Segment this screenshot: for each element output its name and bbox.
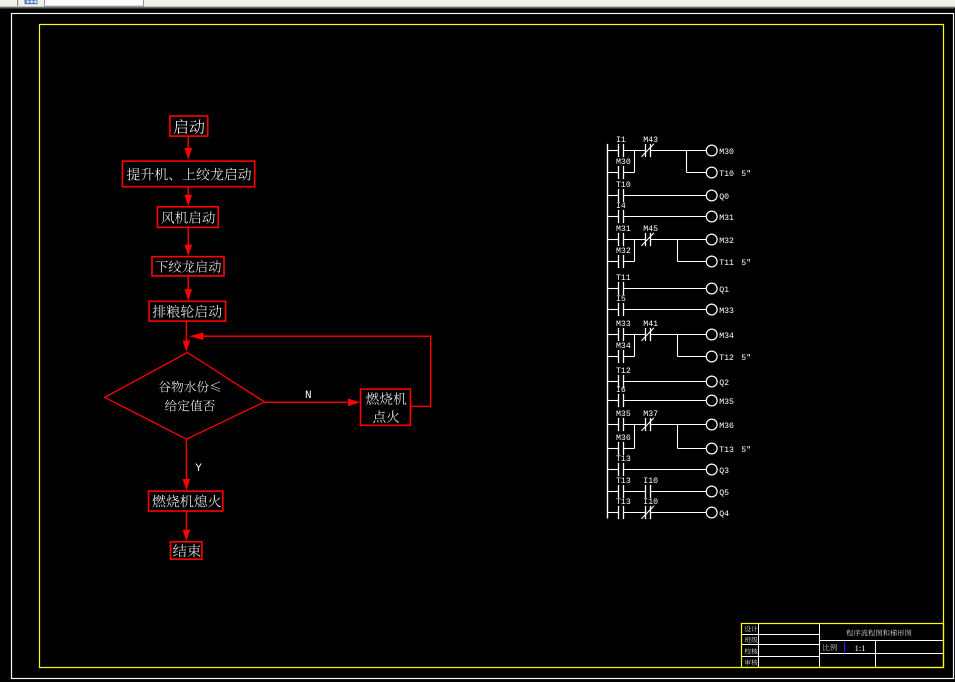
svg-text:T10: T10: [719, 170, 734, 179]
contact M41: [645, 328, 647, 341]
wire junction→coil T13: [678, 448, 707, 450]
svg-text:M35: M35: [616, 410, 631, 419]
coil Q5: [706, 486, 717, 497]
contact T11: [618, 282, 620, 295]
contact M32: [618, 255, 620, 268]
wire T11→coil Q1: [624, 288, 707, 290]
svg-text:5": 5": [741, 258, 751, 268]
toolbar icon: [25, 0, 38, 4]
contact M35: [618, 418, 620, 431]
contact M34: [618, 350, 620, 363]
svg-text:I10: I10: [643, 498, 658, 507]
coil M35: [706, 395, 717, 406]
wire M34→parallel connector: [624, 356, 635, 358]
svg-text:M45: M45: [643, 225, 658, 234]
label 给定值否: [165, 400, 215, 412]
title block title 程序流程图和梯形图: [846, 629, 911, 636]
svg-text:5": 5": [741, 445, 751, 455]
svg-text:5": 5": [741, 353, 751, 363]
title block vertical 1 (labels col): [758, 624, 760, 668]
svg-text:Q4: Q4: [719, 510, 729, 519]
contact M43: [645, 144, 647, 157]
svg-text:T13: T13: [616, 498, 631, 507]
svg-text:I6: I6: [616, 386, 626, 395]
wire M33→M41: [624, 334, 646, 336]
svg-text:M41: M41: [643, 320, 658, 329]
coil T10: [706, 167, 717, 178]
svg-text:T13: T13: [616, 455, 631, 464]
contact M45: [645, 233, 647, 246]
junction drop at x=677.5: [677, 240, 679, 262]
svg-text:Y: Y: [195, 463, 202, 475]
wire rail→M36: [608, 448, 619, 450]
flowchart box 风机启动: [158, 207, 219, 228]
title block label 班级: [745, 637, 758, 643]
arrow diamond→燃烧机点火 (N): [265, 401, 350, 403]
svg-text:Q5: Q5: [719, 489, 729, 498]
flowchart box 下绞龙启动: [152, 257, 224, 276]
title block label 审核: [745, 659, 758, 665]
svg-text:Q1: Q1: [719, 286, 729, 295]
wire T12→coil Q2: [624, 381, 707, 383]
contact T13: [618, 485, 620, 498]
contact T12: [618, 375, 620, 388]
contact I10: [645, 506, 647, 519]
coil Q3: [706, 464, 717, 475]
svg-text:M37: M37: [643, 410, 658, 419]
svg-text:M34: M34: [616, 342, 631, 351]
svg-text:T11: T11: [616, 274, 631, 283]
svg-text:M32: M32: [616, 247, 631, 256]
wire I1→M43: [624, 150, 646, 152]
wire M35→M37: [624, 424, 646, 426]
svg-text:Q0: Q0: [719, 193, 729, 202]
contact M33: [618, 328, 620, 341]
feedback wire 燃烧机点火→diamond top: [204, 336, 431, 406]
contact M31: [618, 233, 620, 246]
title block outer (yellow): [742, 624, 944, 668]
parallel connector at x=634.5: [634, 425, 636, 449]
wire rail→M32: [608, 261, 619, 263]
svg-text:M36: M36: [719, 422, 734, 431]
wire rail→I1: [608, 150, 619, 152]
junction drop at x=677.5: [677, 425, 679, 449]
parallel connector at x=634.5: [634, 151, 636, 173]
svg-text:I4: I4: [616, 202, 626, 211]
label 结束: [173, 544, 201, 557]
coil M31: [706, 211, 717, 222]
wire rail→M35: [608, 424, 619, 426]
svg-text:Q2: Q2: [719, 379, 729, 388]
coil Q1: [706, 283, 717, 294]
svg-text:5": 5": [741, 169, 751, 179]
title block vertical 2 (section split): [819, 624, 821, 668]
label 下绞龙启动: [156, 260, 221, 272]
wire M41→coil M34: [651, 334, 707, 336]
coil M36: [706, 419, 717, 430]
wire T10→coil Q0: [624, 195, 707, 197]
svg-text:T12: T12: [616, 367, 631, 376]
svg-text:1:1: 1:1: [855, 643, 866, 653]
coil T11: [706, 256, 717, 267]
toolbar shadow line: [0, 8, 955, 9]
flowchart box 排粮轮启动: [149, 301, 226, 321]
title block vertical 3 (right cells): [875, 641, 877, 668]
svg-text:M32: M32: [719, 237, 734, 246]
feedback arrowhead: [189, 332, 204, 340]
label 提升机、上绞龙启动: [127, 168, 251, 181]
arrow 提升机→风机: [187, 187, 189, 196]
contact I6: [618, 394, 620, 407]
wire junction→coil T11: [678, 261, 707, 263]
toolbar separator: [17, 0, 18, 6]
flowchart box 结束: [171, 542, 202, 559]
wire junction→coil T12: [678, 356, 707, 358]
wire T13→coil Q3: [624, 469, 707, 471]
coil T12: [706, 351, 717, 362]
coil Q4: [706, 507, 717, 518]
svg-text:I1: I1: [616, 136, 626, 145]
flowchart box 提升机、上绞龙启动: [122, 161, 254, 187]
svg-text:M36: M36: [616, 434, 631, 443]
flowchart decision diamond 谷物水份≤给定值否: [105, 353, 265, 440]
coil T13: [706, 443, 717, 454]
label 燃烧机熄火: [153, 495, 221, 508]
contact M30: [618, 166, 620, 179]
wire rail→T10: [608, 195, 619, 197]
svg-text:T12: T12: [719, 354, 734, 363]
toolbar bottom edge: [0, 7, 955, 8]
svg-text:T11: T11: [719, 259, 734, 268]
wire M37→coil M36: [651, 424, 707, 426]
coil Q2: [706, 376, 717, 387]
wire rail→T13: [608, 469, 619, 471]
toolbar strip background: [0, 0, 955, 7]
wire I10→coil Q5: [651, 491, 707, 493]
svg-text:T13: T13: [616, 477, 631, 486]
title block left row line 3: [742, 656, 820, 658]
svg-text:Q3: Q3: [719, 467, 729, 476]
svg-text:N: N: [305, 390, 312, 402]
parallel connector at x=634.5: [634, 240, 636, 262]
coil M30: [706, 145, 717, 156]
parallel connector at x=634.5: [634, 335, 636, 357]
wire M45→coil M32: [651, 239, 707, 241]
svg-text:I10: I10: [643, 477, 658, 486]
arrow 燃烧机熄火→结束: [185, 511, 187, 531]
flowchart box 启动: [170, 116, 208, 136]
wire M31→M45: [624, 239, 646, 241]
label 点火: [373, 410, 399, 422]
svg-text:M30: M30: [616, 158, 631, 167]
wire M32→parallel connector: [624, 261, 635, 263]
junction drop at x=686.5: [686, 151, 688, 173]
contact I10: [645, 485, 647, 498]
contact M37: [645, 418, 647, 431]
wire rail→M33: [608, 334, 619, 336]
wire rail→I5: [608, 309, 619, 311]
arrow 下绞龙→排粮轮: [187, 276, 189, 290]
wire T13→I10: [624, 512, 646, 514]
svg-text:M31: M31: [616, 225, 631, 234]
svg-text:M30: M30: [719, 148, 734, 157]
coil M34: [706, 329, 717, 340]
ladder left power rail: [607, 144, 609, 519]
svg-text:M33: M33: [616, 320, 631, 329]
wire T13→I10: [624, 491, 646, 493]
flowchart box 燃烧机点火: [361, 389, 411, 425]
wire M43→coil M30: [651, 150, 707, 152]
contact T13: [618, 463, 620, 476]
contact I4: [618, 210, 620, 223]
wire rail→T13: [608, 491, 619, 493]
wire rail→T12: [608, 381, 619, 383]
contact T13: [618, 506, 620, 519]
wire M36→parallel connector: [624, 448, 635, 450]
svg-text:M31: M31: [719, 214, 734, 223]
svg-text:T10: T10: [616, 181, 631, 190]
label 燃烧机: [366, 392, 406, 404]
toolbar input box: [45, 0, 144, 6]
label 谷物水份≤: [159, 381, 220, 393]
wire rail→I6: [608, 400, 619, 402]
label 风机启动: [162, 211, 215, 224]
coil Q0: [706, 190, 717, 201]
title block label 比例: [823, 644, 837, 651]
wire M30→parallel connector: [624, 172, 635, 174]
svg-text:M34: M34: [719, 332, 734, 341]
contact I1: [618, 144, 620, 157]
arrow 风机→下绞龙: [187, 227, 189, 245]
label 启动: [174, 119, 205, 134]
title block right row line 2: [820, 653, 944, 655]
svg-text:M43: M43: [643, 136, 658, 145]
title block label 校核: [744, 648, 757, 654]
contact I5: [618, 303, 620, 316]
svg-text:I5: I5: [616, 295, 626, 304]
wire I10→coil Q4: [651, 512, 707, 514]
title block left row line 1: [742, 634, 820, 636]
wire rail→T11: [608, 288, 619, 290]
title block left row line 2: [742, 644, 820, 646]
wire junction→coil T10: [687, 172, 707, 174]
wire rail→T13: [608, 512, 619, 514]
title block blue divider: [844, 642, 846, 654]
junction drop at x=677.5: [677, 335, 679, 357]
flowchart box 燃烧机熄火: [149, 491, 223, 511]
wire rail→I4: [608, 216, 619, 218]
svg-text:M35: M35: [719, 398, 734, 407]
coil M32: [706, 234, 717, 245]
arrow diamond→燃烧机熄火 (Y): [185, 439, 187, 480]
label 排粮轮启动: [153, 305, 222, 318]
wire rail→M30: [608, 172, 619, 174]
arrow 排粮轮→diamond: [185, 321, 187, 341]
svg-text:T13: T13: [719, 446, 734, 455]
wire rail→M31: [608, 239, 619, 241]
title block right row line 1: [820, 640, 944, 642]
wire rail→M34: [608, 356, 619, 358]
contact M36: [618, 442, 620, 455]
coil M33: [706, 304, 717, 315]
svg-text:M33: M33: [719, 307, 734, 316]
wire I4→coil M31: [624, 216, 707, 218]
contact T10: [618, 189, 620, 202]
arrow 启动→提升机: [187, 136, 189, 149]
wire I6→coil M35: [624, 400, 707, 402]
title block label 设计: [745, 626, 758, 632]
wire I5→coil M33: [624, 309, 707, 311]
